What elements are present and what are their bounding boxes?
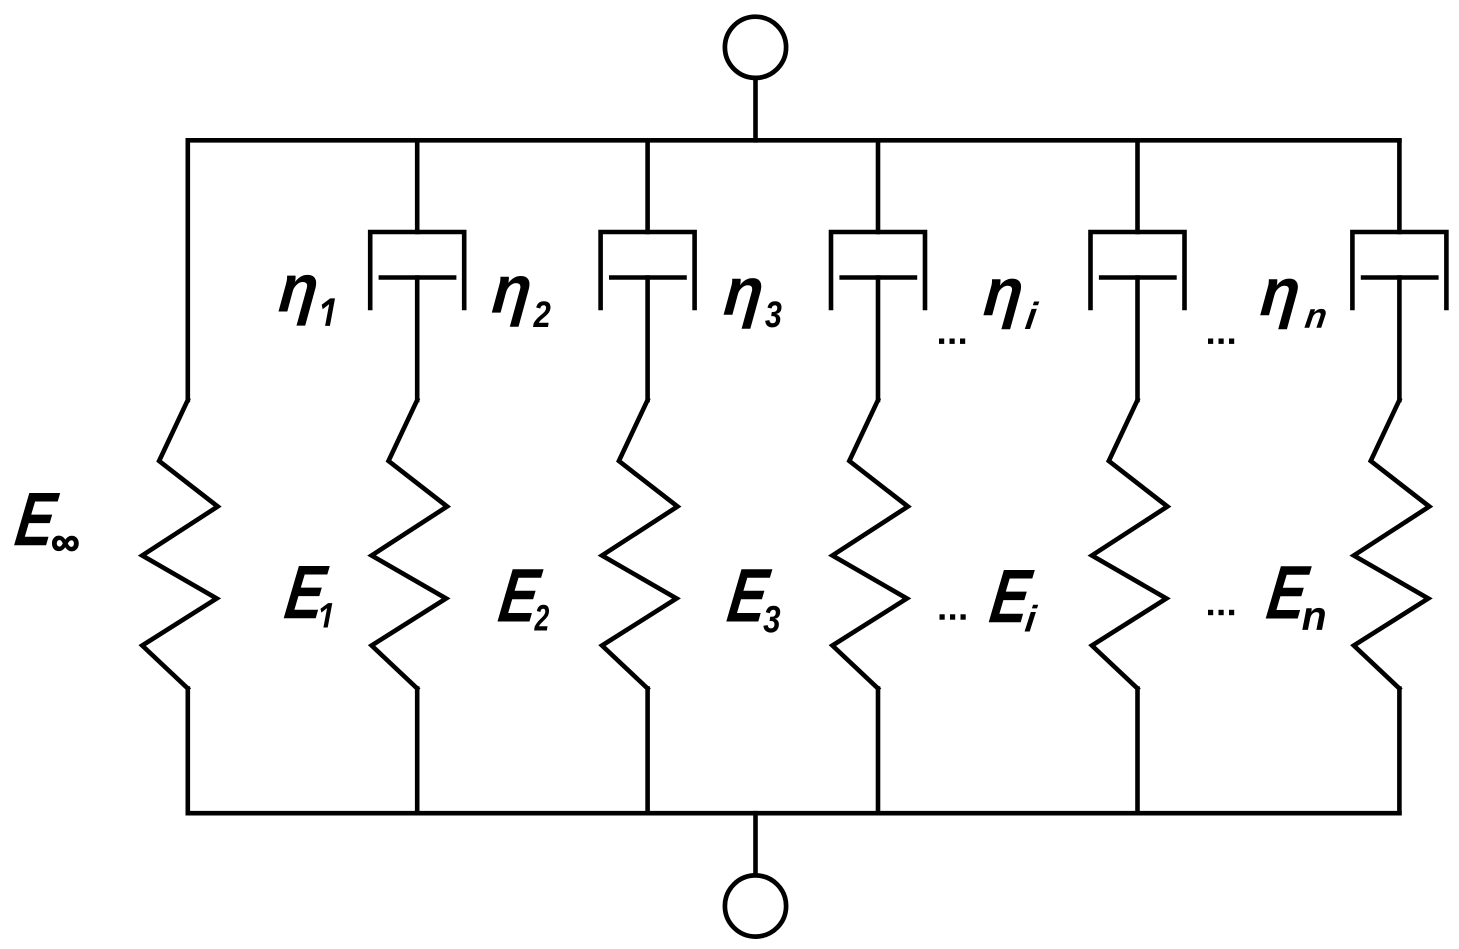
label E_n bbox=[1266, 566, 1325, 630]
wire branch4 rod bbox=[876, 278, 881, 401]
spring E_i bbox=[1092, 400, 1168, 689]
wire branch5 rod bbox=[1135, 278, 1140, 401]
dashpot eta3 cup bbox=[831, 232, 925, 308]
wire branch2 bottom bbox=[415, 689, 420, 814]
dashpot eta2 cup bbox=[601, 232, 695, 308]
wire top stem bbox=[753, 80, 758, 141]
wire branch6 bottom bbox=[1397, 689, 1402, 814]
label eta2 bbox=[492, 276, 551, 327]
label eta_n bbox=[1260, 279, 1326, 330]
wire branch4 bottom bbox=[876, 689, 881, 814]
spring E3 bbox=[832, 400, 908, 689]
label E_i bbox=[989, 570, 1038, 632]
dashpot eta_n piston bbox=[1363, 275, 1436, 280]
dots before E_i bbox=[940, 614, 966, 619]
wire branch5 bottom bbox=[1135, 689, 1140, 814]
label eta_i bbox=[983, 279, 1039, 330]
wire branch6 rod bbox=[1397, 278, 1402, 401]
wire top bus bbox=[188, 138, 1400, 143]
dots before E_n bbox=[1208, 610, 1234, 615]
dashpot eta1 cup bbox=[370, 232, 464, 308]
label eta1 bbox=[279, 275, 336, 326]
label E2 bbox=[498, 569, 550, 630]
label E1 bbox=[284, 566, 333, 628]
wire branch6 top bbox=[1397, 140, 1402, 232]
wire bottom stem bbox=[753, 813, 758, 874]
wire branch3 bottom bbox=[645, 689, 650, 814]
dots before eta_i bbox=[939, 339, 965, 344]
dashpot eta_i cup bbox=[1091, 232, 1185, 308]
wire branch1 bottom bbox=[186, 689, 191, 814]
label E3 bbox=[726, 569, 780, 632]
label E_infinity bbox=[14, 493, 78, 551]
wire branch5 top bbox=[1135, 140, 1140, 232]
wire branch1 top bbox=[186, 140, 191, 400]
label eta3 bbox=[724, 278, 782, 329]
wire branch4 top bbox=[876, 140, 881, 232]
top terminal circle bbox=[725, 17, 786, 78]
dashpot eta_i piston bbox=[1101, 275, 1174, 280]
bottom terminal circle bbox=[725, 875, 786, 936]
spring E2 bbox=[602, 400, 678, 689]
dots before eta_n bbox=[1208, 339, 1234, 344]
wire branch3 rod bbox=[645, 278, 650, 401]
spring E_inf bbox=[142, 400, 218, 689]
wire branch3 top bbox=[645, 140, 650, 232]
dashpot eta3 piston bbox=[842, 275, 915, 280]
wire branch2 rod bbox=[415, 278, 420, 401]
dashpot eta_n cup bbox=[1352, 232, 1446, 308]
dashpot eta2 piston bbox=[611, 275, 684, 280]
wire bottom bus bbox=[188, 811, 1400, 816]
spring E1 bbox=[372, 400, 448, 689]
spring E_n bbox=[1354, 400, 1430, 689]
dashpot eta1 piston bbox=[381, 275, 454, 280]
wire branch2 top bbox=[415, 140, 420, 232]
